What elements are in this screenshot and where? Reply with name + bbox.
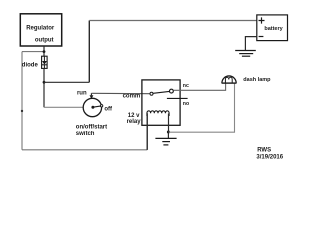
svg-text:Regulator: Regulator — [26, 25, 55, 31]
ground (battery) — [235, 51, 256, 57]
diode D1 — [42, 56, 48, 68]
junction dot at tap — [43, 50, 46, 53]
svg-text:no: no — [183, 101, 189, 107]
battery positive rail wire — [89, 20, 256, 22]
dash lamp DS1 — [222, 76, 237, 83]
relay comm contact — [150, 92, 153, 95]
relay coil L1 — [147, 111, 169, 116]
arrowhead at switch run terminal — [90, 95, 94, 99]
svg-text:output: output — [35, 38, 54, 44]
switch S1 on/off/start — [83, 98, 103, 116]
junction dot coil/ground/lamp — [167, 131, 170, 134]
svg-text:RWS: RWS — [257, 147, 271, 153]
relay no terminal stub — [167, 97, 188, 99]
wire bottom rail up to relay coil left lead — [146, 113, 148, 150]
svg-text:dash lamp: dash lamp — [243, 77, 271, 83]
wire nc to dash lamp left lead — [174, 83, 226, 90]
wire tap to left rail — [22, 51, 44, 53]
junction dot below diode — [43, 81, 46, 84]
ground (relay coil) — [155, 138, 176, 145]
wire battery negative to ground — [245, 37, 256, 51]
left rail wire — [21, 52, 23, 150]
svg-text:nc: nc — [183, 83, 189, 89]
svg-text:off: off — [104, 107, 113, 113]
regulator U1 — [20, 14, 61, 46]
svg-text:relay: relay — [127, 119, 142, 125]
relay nc contact — [170, 89, 174, 93]
bottom rail wire — [22, 149, 147, 151]
wire regulator output down to diode anode — [43, 46, 45, 56]
wire run to relay comm — [91, 92, 150, 94]
svg-text:diode: diode — [22, 62, 39, 68]
battery B1 — [257, 15, 288, 41]
wire run terminal with arrow into switch top — [90, 93, 92, 95]
wire junction down to ground — [167, 132, 169, 138]
wire junction to dash lamp right lead — [168, 83, 234, 132]
wire coil left lead down (drawn with bottom rail riser above) — [146, 114, 148, 150]
wire junction to riser — [44, 81, 89, 83]
svg-text:switch: switch — [76, 131, 95, 137]
wire coil right lead down to junction — [168, 114, 170, 133]
wire diode cathode down to switch feed corner — [43, 68, 45, 107]
relay K1 box — [142, 80, 180, 125]
relay armature comm to nc — [153, 91, 169, 93]
svg-text:on/off/start: on/off/start — [76, 124, 107, 130]
stray junction blip on left rail — [21, 110, 23, 112]
riser wire up to battery rail — [88, 21, 90, 83]
wire diode net to switch common — [44, 106, 83, 108]
svg-text:3/19/2016: 3/19/2016 — [256, 154, 283, 160]
svg-text:comm: comm — [123, 94, 141, 100]
svg-text:run: run — [77, 90, 87, 96]
svg-text:battery: battery — [264, 26, 283, 32]
